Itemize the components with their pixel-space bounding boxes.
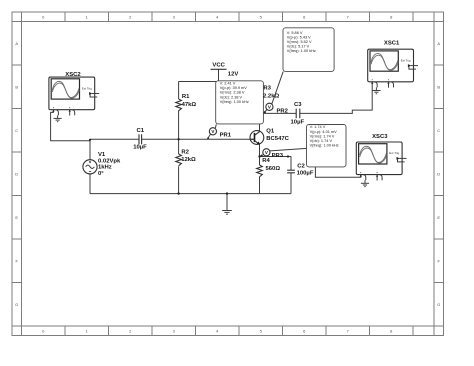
svg-text:PR2: PR2 bbox=[277, 109, 289, 115]
svg-text:V1: V1 bbox=[98, 152, 106, 158]
svg-text:8: 8 bbox=[390, 14, 393, 19]
svg-text:A: A bbox=[15, 41, 18, 46]
svg-text:C2: C2 bbox=[297, 163, 305, 169]
svg-text:PR1: PR1 bbox=[220, 133, 232, 139]
svg-text:V(p-p): 5.43 V: V(p-p): 5.43 V bbox=[287, 36, 311, 40]
svg-text:0: 0 bbox=[42, 328, 45, 333]
svg-text:3: 3 bbox=[173, 14, 176, 19]
svg-text:8: 8 bbox=[390, 328, 393, 333]
svg-text:12kΩ: 12kΩ bbox=[181, 157, 196, 163]
svg-text:E: E bbox=[437, 215, 440, 220]
svg-text:Q1: Q1 bbox=[266, 129, 275, 135]
svg-text:7: 7 bbox=[347, 14, 350, 19]
svg-text:XSC2: XSC2 bbox=[65, 72, 81, 78]
svg-text:R1: R1 bbox=[182, 94, 190, 100]
svg-text:1kHz: 1kHz bbox=[98, 165, 112, 171]
svg-text:2: 2 bbox=[129, 14, 132, 19]
svg-text:V(freq): 1.00 kHz: V(freq): 1.00 kHz bbox=[310, 143, 339, 147]
svg-text:V: 2.41 V: V: 2.41 V bbox=[220, 82, 236, 86]
svg-text:F: F bbox=[15, 258, 18, 263]
svg-text:V(p-p): 4.01 mV: V(p-p): 4.01 mV bbox=[310, 130, 338, 134]
svg-text:560Ω: 560Ω bbox=[266, 166, 281, 172]
svg-text:12V: 12V bbox=[228, 71, 239, 77]
svg-text:V(rms): 1.74 V: V(rms): 1.74 V bbox=[310, 134, 335, 138]
svg-text:G: G bbox=[437, 302, 440, 307]
svg-text:V: 1.74 V: V: 1.74 V bbox=[310, 125, 326, 129]
svg-text:V(rms): 5.52 V: V(rms): 5.52 V bbox=[287, 40, 312, 44]
svg-text:5: 5 bbox=[260, 328, 263, 333]
svg-text:0°: 0° bbox=[98, 171, 104, 177]
svg-text:V(dc): 2.38 V: V(dc): 2.38 V bbox=[220, 95, 243, 99]
svg-text:5: 5 bbox=[260, 14, 263, 19]
svg-text:VCC: VCC bbox=[212, 62, 225, 68]
svg-text:V: 5.86 V: V: 5.86 V bbox=[287, 31, 303, 35]
svg-text:C: C bbox=[15, 128, 18, 133]
svg-text:F: F bbox=[437, 258, 440, 263]
svg-text:2.2kΩ: 2.2kΩ bbox=[263, 93, 279, 99]
svg-text:D: D bbox=[437, 171, 440, 176]
svg-text:1: 1 bbox=[86, 14, 89, 19]
svg-text:B: B bbox=[437, 84, 440, 89]
svg-text:47kΩ: 47kΩ bbox=[182, 102, 197, 108]
svg-text:B: B bbox=[15, 84, 18, 89]
svg-text:6: 6 bbox=[303, 14, 306, 19]
svg-text:V(dc): 1.74 V: V(dc): 1.74 V bbox=[310, 139, 333, 143]
svg-text:10µF: 10µF bbox=[291, 120, 305, 126]
svg-text:C3: C3 bbox=[294, 102, 302, 108]
svg-text:D: D bbox=[15, 171, 18, 176]
svg-text:R2: R2 bbox=[181, 150, 189, 156]
svg-text:C1: C1 bbox=[137, 128, 145, 134]
svg-text:V(rms): 2.38 V: V(rms): 2.38 V bbox=[220, 91, 245, 95]
svg-text:1: 1 bbox=[86, 328, 89, 333]
svg-text:XSC3: XSC3 bbox=[372, 134, 388, 140]
svg-text:7: 7 bbox=[347, 328, 350, 333]
svg-text:V(freq): 1.00 kHz: V(freq): 1.00 kHz bbox=[287, 49, 316, 53]
svg-text:4: 4 bbox=[216, 328, 219, 333]
svg-text:0: 0 bbox=[42, 14, 45, 19]
svg-text:2: 2 bbox=[129, 328, 132, 333]
svg-text:0.02Vpk: 0.02Vpk bbox=[98, 158, 121, 164]
svg-text:6: 6 bbox=[303, 328, 306, 333]
svg-text:E: E bbox=[15, 215, 18, 220]
svg-text:R4: R4 bbox=[262, 158, 270, 164]
svg-text:PR3: PR3 bbox=[272, 153, 284, 159]
svg-text:3: 3 bbox=[173, 328, 176, 333]
svg-text:4: 4 bbox=[216, 14, 219, 19]
svg-text:100µF: 100µF bbox=[297, 171, 314, 177]
svg-text:V(freq): 1.00 kHz: V(freq): 1.00 kHz bbox=[220, 100, 249, 104]
svg-text:XSC1: XSC1 bbox=[384, 41, 400, 47]
svg-text:A: A bbox=[437, 41, 440, 46]
svg-text:10µF: 10µF bbox=[133, 144, 147, 150]
svg-text:V(dc): 5.17 V: V(dc): 5.17 V bbox=[287, 45, 310, 49]
svg-text:C: C bbox=[437, 128, 440, 133]
svg-text:V(p-p): 39.9 mV: V(p-p): 39.9 mV bbox=[220, 86, 248, 90]
svg-text:BC547C: BC547C bbox=[266, 136, 289, 142]
svg-text:R3: R3 bbox=[263, 86, 271, 92]
svg-text:G: G bbox=[15, 302, 18, 307]
